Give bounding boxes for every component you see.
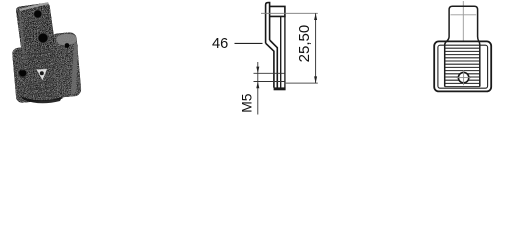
product photo: cam lock part: [12, 2, 82, 103]
photo tongue plate (upper): [15, 2, 56, 62]
housing top flag (side view): [270, 6, 285, 16]
housing outer (front view): [434, 41, 491, 91]
hole hidden line lower: [254, 81, 285, 83]
housing bottom band (side view): [274, 87, 286, 90]
M5 dimension leader line: [257, 62, 259, 115]
photo plate hole lower: [38, 33, 48, 43]
photo plate hole upper: [34, 10, 42, 18]
screw hole crosshair vertical: [463, 70, 465, 85]
housing rear face line (side view): [284, 16, 286, 87]
tongue centerline vertical: [462, 1, 464, 41]
svg-text:46: 46: [212, 36, 228, 52]
photo plate left edge highlight: [19, 11, 27, 63]
tongue crank bend (side view): [266, 43, 274, 87]
photo right block top face highlight: [56, 34, 77, 46]
tongue upper strip (side view): [266, 3, 270, 44]
photo housing block (lower): [12, 44, 66, 103]
svg-text:25,50: 25,50: [296, 25, 313, 63]
photo serration stripes on housing face: [20, 52, 55, 95]
svg-text:M5: M5: [239, 93, 254, 112]
screw hole (front view): [458, 72, 468, 82]
tongue centerline horizontal: [451, 14, 477, 16]
housing front face line (side view): [280, 16, 282, 87]
M5 arrow lower (points up): [256, 82, 259, 89]
serration ribs (front view): [445, 48, 480, 86]
bottom extension line: [285, 82, 318, 84]
photo right side block: [50, 32, 81, 98]
photo countersunk screw highlight: [37, 69, 48, 80]
arrow up of 25,50: [314, 13, 317, 20]
photo bottom shadow band: [20, 96, 62, 103]
arrow down of 25,50: [314, 76, 317, 83]
screw hole crosshair horizontal: [456, 77, 471, 79]
photo plate top edge highlight: [19, 2, 49, 11]
housing inner wall (front view): [438, 45, 488, 88]
hole hidden line upper: [254, 72, 285, 74]
photo right block right edge highlight: [71, 42, 78, 95]
tongue (front view): [445, 6, 480, 86]
photo housing hole lower-left: [18, 69, 26, 77]
leader line for 46: [235, 42, 263, 44]
dimension line 25,50: [315, 13, 317, 83]
photo right block small hole: [65, 43, 70, 48]
centerline axis (top): [261, 12, 318, 14]
M5 arrow upper (points down): [256, 67, 259, 74]
